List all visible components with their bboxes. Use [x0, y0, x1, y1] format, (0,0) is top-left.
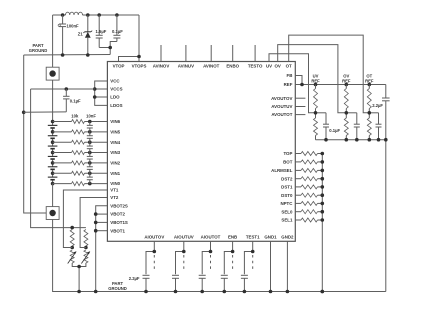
- svg-text:REF: REF: [365, 78, 374, 83]
- svg-text:VTOPS: VTOPS: [132, 63, 147, 68]
- node - ground vertical dot: [22, 111, 26, 115]
- wire - top supply rail right segment: [83, 14, 140, 16]
- svg-text:REF: REF: [342, 78, 351, 83]
- capacitor 1.5uF: [96, 15, 111, 48]
- svg-text:VIN3: VIN3: [110, 150, 120, 155]
- svg-text:SEL0: SEL0: [281, 209, 293, 214]
- thermistor NTC1: [68, 250, 77, 264]
- label 0.1uF VCC: [70, 99, 81, 104]
- wire - OV wire: [278, 45, 347, 113]
- svg-text:VIN0: VIN0: [110, 181, 120, 186]
- wire - free top pin stubs: [161, 45, 255, 62]
- label 2.2uF: [372, 103, 383, 108]
- node - thermistor mid dots: [70, 246, 87, 250]
- node - right bus dots: [321, 152, 325, 222]
- svg-text:SEL1: SEL1: [281, 218, 293, 223]
- svg-text:VBOT2S: VBOT2S: [110, 203, 128, 208]
- node - top rail junction dots: [61, 13, 141, 58]
- svg-text:ENB: ENB: [228, 235, 237, 240]
- label 10k: [71, 114, 79, 119]
- wire - divider bottom rail: [316, 139, 386, 141]
- node - polarity mark: [58, 24, 60, 26]
- svg-text:DST2: DST2: [281, 176, 293, 181]
- wire - right resistor bus: [321, 154, 323, 292]
- node - VCCS wire dot: [65, 87, 69, 91]
- label PART GROUND top: [29, 43, 48, 53]
- svg-text:AIOUTOV: AIOUTOV: [144, 235, 164, 240]
- wire - part ground rail: [24, 54, 111, 57]
- connector J2 (square with dot): [46, 207, 59, 220]
- svg-text:0.1µF: 0.1µF: [112, 29, 123, 34]
- node - battery tap dots: [51, 120, 55, 186]
- svg-text:AVINUV: AVINUV: [178, 63, 194, 68]
- wire - VCC group bus: [95, 81, 108, 105]
- resistor divider OT lower: [367, 118, 371, 136]
- svg-text:AIOUTUV: AIOUTUV: [174, 235, 194, 240]
- label 10nF: [86, 114, 96, 119]
- svg-text:DST1: DST1: [281, 185, 293, 190]
- svg-text:2.2µF: 2.2µF: [129, 276, 140, 281]
- wire - REF rail: [295, 84, 386, 86]
- labels - left pins: [110, 79, 128, 234]
- resistor divider OT upper: [367, 85, 371, 140]
- inductor L1: [66, 12, 83, 15]
- label PART GROUND bottom: [108, 281, 127, 291]
- capacitor 100nF: [59, 15, 66, 55]
- labels - right pins: [271, 73, 293, 223]
- svg-text:GND2: GND2: [281, 235, 294, 240]
- svg-text:REF: REF: [284, 82, 293, 87]
- label 2.2uF bottom: [129, 276, 140, 281]
- wire - thermistor bottoms join: [72, 263, 86, 292]
- capacitor 0.1uF top: [110, 15, 120, 55]
- node - 2.2uF rail dot: [384, 138, 388, 142]
- node - VIN cap column dots: [88, 120, 92, 186]
- svg-text:BOT: BOT: [283, 160, 293, 165]
- node - VCC bus dots: [93, 87, 97, 99]
- node - divider OT mid dot: [368, 111, 372, 115]
- svg-text:OV: OV: [275, 63, 281, 68]
- wire - battery bus lower: [52, 184, 54, 207]
- svg-text:VCCS: VCCS: [110, 87, 122, 92]
- svg-text:100nF: 100nF: [67, 23, 80, 28]
- wire - battery bus top: [52, 15, 54, 67]
- resistor RT2 top: [84, 230, 88, 247]
- svg-text:VT2: VT2: [110, 195, 119, 200]
- capacitor 2.2uF: [382, 85, 390, 292]
- capacitor output filter 3: [199, 241, 213, 291]
- resistors - right pin pulls: [295, 152, 322, 223]
- node - REF rail dots: [300, 83, 371, 87]
- wire - top supply rail left segment: [53, 14, 66, 16]
- wire - VTOP pin stub: [0, 0, 1, 1]
- labels - UV REF / OV REF / OT REF: [311, 74, 374, 84]
- resistor RT1 top: [70, 230, 74, 247]
- node - thermistor join dot: [77, 265, 81, 269]
- connector J1 (square with dot): [46, 67, 59, 80]
- wire - VTOPS stub: [138, 57, 140, 62]
- node - divider OV mid dot: [345, 111, 349, 115]
- labels - top pins: [113, 63, 292, 68]
- svg-text:VIN5: VIN5: [110, 130, 120, 135]
- op-amp U1 AD8280 body: [107, 62, 295, 242]
- svg-text:VIN4: VIN4: [110, 140, 120, 145]
- capacitor output filter 2: [172, 241, 186, 291]
- label 0.1uF divider: [329, 128, 340, 133]
- resistors 10k on VIN rows: [53, 120, 108, 186]
- svg-text:AVOUTOV: AVOUTOV: [271, 96, 292, 101]
- svg-text:VIN2: VIN2: [110, 161, 120, 166]
- capacitor 0.1uF VCC: [24, 89, 70, 112]
- svg-text:UV: UV: [266, 63, 272, 68]
- node - cap junction: [108, 46, 112, 50]
- svg-text:ALRMSEL: ALRMSEL: [271, 168, 293, 173]
- resistor divider OV lower: [344, 118, 348, 136]
- wire - battery bus upper: [52, 80, 54, 121]
- svg-text:TESTO: TESTO: [248, 63, 263, 68]
- resistor divider UV lower: [314, 118, 318, 136]
- label Z1: [78, 32, 84, 37]
- svg-text:LDO: LDO: [110, 95, 120, 100]
- thermistor NTC2: [81, 250, 90, 264]
- node - thermistor rail dot: [70, 226, 74, 230]
- wire - VCC drop to thermistor rail: [31, 89, 86, 228]
- labels - bottom pins: [144, 235, 294, 240]
- wire - battery stack bus segments: [52, 122, 54, 184]
- svg-text:VBOT1: VBOT1: [110, 228, 125, 233]
- svg-text:AVOUTUV: AVOUTUV: [271, 104, 292, 109]
- wire - VT1 connection: [63, 190, 107, 248]
- capacitor output filter 5: [241, 241, 255, 291]
- svg-text:VTOP: VTOP: [113, 63, 125, 68]
- label 0.1uF top: [112, 29, 123, 34]
- capacitor divider UV: [316, 113, 330, 140]
- svg-text:Z1: Z1: [78, 32, 84, 37]
- svg-text:VBOT2: VBOT2: [110, 212, 125, 217]
- svg-text:0.1µF: 0.1µF: [70, 99, 81, 104]
- svg-text:REF: REF: [311, 78, 320, 83]
- svg-text:10nF: 10nF: [86, 114, 96, 119]
- capacitor output filter 4: [221, 241, 235, 291]
- svg-text:TEST1: TEST1: [246, 235, 260, 240]
- capacitor divider OT: [369, 113, 381, 140]
- battery cells B1-B6: [48, 125, 58, 179]
- svg-text:0.1µF: 0.1µF: [329, 128, 340, 133]
- wire - FB tie to REF: [295, 76, 302, 85]
- svg-text:FB: FB: [287, 73, 293, 78]
- resistor divider OV upper: [344, 85, 348, 140]
- capacitor output filter 1: [143, 241, 157, 291]
- capacitor divider OV: [346, 113, 360, 140]
- label 1.5uF: [96, 29, 107, 34]
- svg-text:ENBO: ENBO: [226, 63, 239, 68]
- svg-text:AIOUTOT: AIOUTOT: [201, 235, 221, 240]
- svg-text:1.5µF: 1.5µF: [96, 29, 107, 34]
- svg-text:2.2µF: 2.2µF: [372, 103, 383, 108]
- svg-text:10k: 10k: [71, 114, 79, 119]
- svg-text:AVINOT: AVINOT: [203, 63, 220, 68]
- wire - part ground vertical: [24, 55, 46, 213]
- node - ground rail dots: [61, 53, 90, 57]
- wire - VBOT bus: [96, 206, 108, 292]
- svg-text:GND1: GND1: [264, 235, 277, 240]
- wire - VT2 connection: [80, 198, 107, 248]
- wire - UV wire: [269, 54, 316, 113]
- svg-text:GROUND: GROUND: [29, 48, 48, 53]
- svg-text:GROUND: GROUND: [108, 286, 127, 291]
- svg-text:AVINOV: AVINOV: [153, 63, 170, 68]
- node - bottom rail dots: [77, 290, 324, 294]
- svg-text:TOP: TOP: [283, 151, 292, 156]
- svg-text:DST0: DST0: [281, 193, 293, 198]
- label 100nF: [67, 23, 80, 28]
- svg-text:VIN6: VIN6: [110, 119, 120, 124]
- wire - AVOUT stubs: [295, 98, 305, 114]
- svg-text:VCC: VCC: [110, 79, 120, 84]
- svg-text:VBOT1S: VBOT1S: [110, 220, 128, 225]
- node - divider rail dots: [324, 138, 380, 142]
- wire - top rail drop to VTOP/VTOPS: [119, 15, 140, 62]
- svg-text:AVOUTOT: AVOUTOT: [271, 112, 292, 117]
- node - right bus rail dot: [321, 290, 325, 294]
- node - divider UV mid dot: [314, 111, 318, 115]
- svg-text:VT1: VT1: [110, 188, 119, 193]
- resistor divider UV upper: [314, 85, 318, 140]
- svg-text:VIN1: VIN1: [110, 171, 120, 176]
- wire - VCCS to left: [31, 88, 95, 90]
- node - VBOT bus dots: [94, 212, 98, 232]
- svg-text:NPTC: NPTC: [280, 201, 293, 206]
- wire - OT wire: [289, 35, 370, 113]
- capacitors 10nF between VIN rows: [87, 122, 93, 184]
- wire - GND1 pin: [270, 241, 272, 291]
- wire - GND2 pin: [286, 241, 288, 291]
- zener diode Z1: [83, 15, 92, 55]
- svg-text:OT: OT: [286, 63, 292, 68]
- svg-text:LDOS: LDOS: [110, 103, 122, 108]
- wire - battery bottom to ground rail: [53, 220, 386, 292]
